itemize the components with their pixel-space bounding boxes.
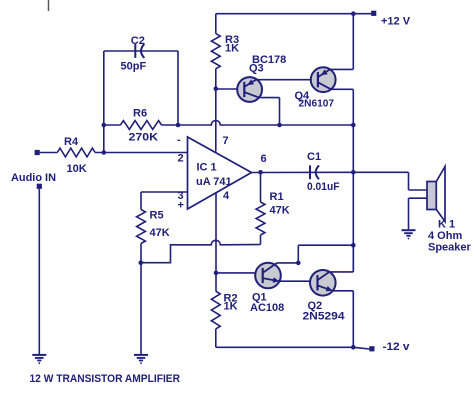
- svg-text:R6: R6: [133, 108, 147, 120]
- svg-text:12 W TRANSISTOR AMPLIFIER: 12 W TRANSISTOR AMPLIFIER: [30, 373, 181, 385]
- svg-text:+: +: [178, 200, 184, 212]
- svg-text:uA 741: uA 741: [196, 176, 232, 188]
- svg-text:7: 7: [223, 135, 229, 147]
- svg-text:R1: R1: [270, 191, 284, 203]
- svg-text:10K: 10K: [67, 163, 87, 175]
- svg-text:6: 6: [261, 153, 267, 165]
- svg-text:Q3: Q3: [249, 63, 264, 75]
- svg-text:R4: R4: [64, 136, 79, 148]
- svg-text:47K: 47K: [150, 227, 170, 239]
- svg-text:Speaker: Speaker: [428, 242, 472, 254]
- svg-text:C2: C2: [131, 35, 145, 47]
- svg-text:Audio IN: Audio IN: [11, 172, 56, 184]
- svg-text:2: 2: [178, 153, 184, 165]
- svg-text:47K: 47K: [270, 205, 290, 217]
- svg-text:IC 1: IC 1: [197, 162, 217, 174]
- svg-text:4: 4: [223, 190, 230, 202]
- svg-text:C1: C1: [307, 151, 321, 163]
- svg-text:2N6107: 2N6107: [299, 99, 335, 110]
- svg-text:4 Ohm: 4 Ohm: [428, 230, 462, 242]
- svg-text:AC108: AC108: [250, 302, 284, 314]
- svg-text:0.01uF: 0.01uF: [307, 181, 340, 193]
- svg-text:R5: R5: [150, 210, 164, 222]
- svg-text:1K: 1K: [224, 301, 238, 313]
- svg-text:50pF: 50pF: [121, 61, 147, 73]
- svg-text:-: -: [177, 134, 181, 146]
- svg-text:1K: 1K: [225, 43, 239, 55]
- svg-text:K 1: K 1: [438, 219, 455, 231]
- svg-text:+12 V: +12 V: [381, 16, 411, 28]
- svg-text:2N5294: 2N5294: [303, 311, 346, 323]
- svg-text:-12 v: -12 v: [383, 341, 411, 353]
- svg-text:270K: 270K: [129, 132, 159, 144]
